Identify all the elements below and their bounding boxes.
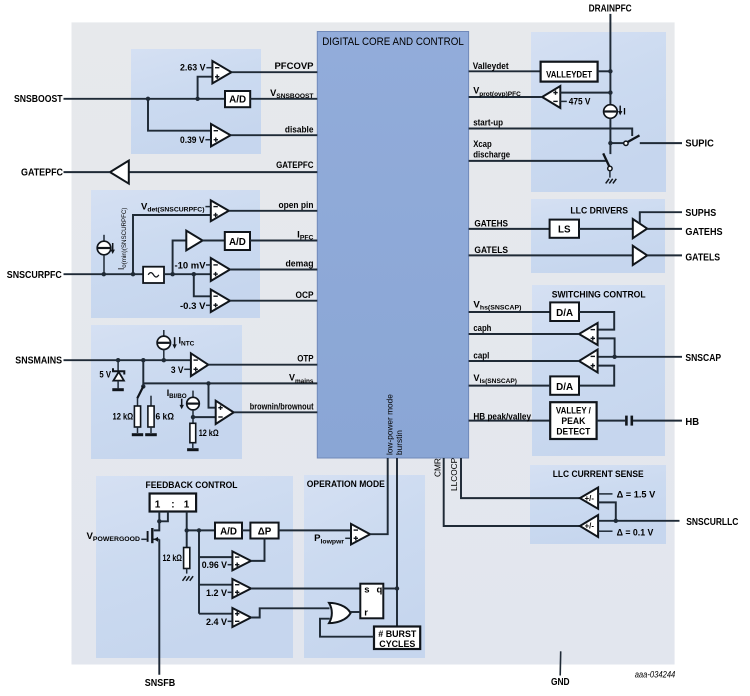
pin label SUPIC bbox=[685, 138, 714, 150]
pin label SNSFB bbox=[145, 677, 176, 689]
svg-text:-0.3 V: -0.3 V bbox=[180, 301, 206, 312]
value label 12 kOhm feedback bbox=[163, 553, 183, 564]
current source I o(min)(SNSCURPFC) bbox=[97, 235, 111, 274]
comparator U9 OCP bbox=[211, 290, 230, 313]
value label 1.2 V bbox=[206, 588, 232, 599]
pin label SNSCURLLC bbox=[686, 516, 739, 528]
wire comparator chain vertical bbox=[198, 530, 200, 613]
svg-text:VALLEYDET: VALLEYDET bbox=[546, 70, 592, 80]
value label 0.96 V bbox=[202, 560, 233, 571]
value label 475 V bbox=[560, 97, 591, 108]
wire 1.2V output to latch s bbox=[251, 588, 360, 590]
net label VSNSBOOST bbox=[270, 88, 314, 100]
wire PFCOVP output bbox=[231, 71, 317, 73]
value label 5 V bbox=[99, 369, 111, 380]
svg-text:GATELS: GATELS bbox=[474, 245, 508, 256]
net label GATEHS bbox=[474, 218, 508, 229]
wire VSNSBOOST output bbox=[250, 98, 317, 100]
svg-text:ΔP: ΔP bbox=[258, 526, 272, 537]
pin label HB bbox=[685, 416, 699, 428]
svg-text:GATEPFC: GATEPFC bbox=[276, 160, 314, 171]
title FEEDBACK CONTROL bbox=[146, 480, 238, 491]
value label 2.63 V bbox=[180, 62, 212, 73]
wire to open pin comparator + input bbox=[133, 215, 211, 274]
capacitor C1 HB bbox=[626, 416, 631, 426]
svg-text:s: s bbox=[364, 585, 369, 596]
wire 2.4V output to OR gate bbox=[251, 608, 330, 617]
or gate U19 bbox=[329, 603, 351, 623]
comparator U27 caph bbox=[579, 323, 598, 345]
node SNSCAP junction bbox=[612, 355, 616, 359]
node switch pivot bbox=[141, 384, 145, 388]
panel OPERATION MODE bbox=[304, 475, 425, 658]
svg-text:OCP: OCP bbox=[296, 290, 315, 301]
svg-text:DIGITAL CORE AND CONTROL: DIGITAL CORE AND CONTROL bbox=[322, 36, 464, 48]
svg-text:Δ = 1.5 V: Δ = 1.5 V bbox=[617, 490, 656, 501]
svg-text:I: I bbox=[623, 106, 626, 116]
svg-text:GATEHS: GATEHS bbox=[685, 226, 722, 238]
switch S3 Xcap discharge bbox=[603, 153, 612, 177]
D/A converter U26 bbox=[550, 302, 579, 321]
panel SWITCHING CONTROL bbox=[532, 285, 665, 456]
net label PFCOVP bbox=[274, 61, 314, 72]
buffer U4 PFC gate driver bbox=[110, 161, 129, 184]
comparator U11 brownin/brownout bbox=[216, 401, 234, 424]
A/D converter U7 bbox=[225, 232, 250, 250]
wire detect to capacitor bbox=[597, 420, 626, 422]
node current source to SNSCURPFC bbox=[102, 272, 106, 276]
value label 12 kOhm brown bbox=[199, 428, 219, 439]
svg-text:12 kΩ: 12 kΩ bbox=[163, 553, 183, 564]
node OCP branch bbox=[192, 272, 196, 276]
wire transformer right pin bbox=[186, 512, 188, 531]
net label GATELS bbox=[474, 245, 508, 256]
net label Vmains bbox=[289, 373, 314, 385]
wire demag output bbox=[230, 269, 317, 271]
svg-text:HB peak/valley: HB peak/valley bbox=[473, 411, 531, 422]
svg-text:1.2 V: 1.2 V bbox=[206, 588, 228, 599]
wire OTP output bbox=[208, 364, 317, 366]
arrow INTC direction bbox=[172, 337, 176, 349]
A/D converter U12 bbox=[215, 523, 242, 539]
comparator U10 OTP bbox=[191, 353, 208, 376]
wire DRAINPFC vertical bbox=[609, 14, 611, 105]
latch U18 SR bbox=[360, 584, 383, 619]
value label 6 kOhm bbox=[156, 411, 175, 422]
panel LLC CURRENT SENSE bbox=[530, 465, 666, 544]
wire filter to demag comparator bbox=[164, 273, 211, 275]
net label GATEPFC bbox=[276, 160, 314, 171]
wire SNSCURPFC main bbox=[64, 273, 144, 275]
wire OCP output bbox=[230, 300, 317, 302]
svg-text:CYCLES: CYCLES bbox=[379, 639, 415, 649]
svg-text:1: 1 bbox=[155, 499, 161, 510]
A/D converter U2 bbox=[225, 91, 250, 107]
wire Xcap discharge from core bbox=[469, 160, 606, 162]
title OPERATION MODE bbox=[307, 479, 386, 490]
pin label VPOWERGOOD bbox=[87, 531, 141, 543]
svg-text:2.63 V: 2.63 V bbox=[180, 62, 206, 73]
wire Vls(SNSCAP) from core bbox=[469, 385, 551, 387]
wire capacitor to HB pin bbox=[633, 420, 682, 422]
wire brownin/brownout output bbox=[234, 411, 318, 413]
wire Vhs(SNSCAP) from core bbox=[469, 311, 551, 313]
wire branch to 2.4V comparator bbox=[199, 613, 232, 615]
ground R1 bbox=[132, 433, 143, 436]
switch S1 divider select bbox=[137, 386, 143, 398]
wire start-up from core bbox=[469, 129, 633, 137]
filter block F1 bbox=[143, 267, 164, 283]
node SNSBOOST branch A bbox=[146, 97, 150, 101]
wire SNSCAP line bbox=[598, 356, 682, 358]
node brown branch on Vmains bbox=[206, 381, 210, 385]
buffer U24 high side driver bbox=[633, 219, 647, 238]
wire disable output bbox=[231, 134, 318, 136]
svg-text:SNSFB: SNSFB bbox=[145, 677, 176, 689]
net label OTP bbox=[297, 354, 314, 365]
net label IPFC bbox=[297, 229, 313, 241]
current source I BI/BO bbox=[187, 391, 200, 418]
wire feedback node to A/D bbox=[187, 529, 215, 531]
amplifier U6 bbox=[186, 231, 202, 251]
wire capl output to core bbox=[469, 360, 579, 362]
wire GATEPFC to pin bbox=[64, 171, 111, 173]
wire to MOSFET drain bbox=[154, 521, 160, 530]
resistor R2 6k bbox=[148, 396, 154, 433]
net label HB peak/valley bbox=[473, 411, 531, 422]
pin label GND bbox=[551, 676, 570, 688]
svg-text:6 kΩ: 6 kΩ bbox=[156, 411, 175, 422]
wire CMR from core to comparator bbox=[444, 458, 580, 526]
switch S2 SUPIC bbox=[624, 135, 640, 145]
svg-text:LLC CURRENT SENSE: LLC CURRENT SENSE bbox=[553, 469, 644, 480]
node open-pin branch bbox=[131, 272, 135, 276]
net label brownin/brownout bbox=[250, 402, 314, 413]
svg-text:SNSBOOST: SNSBOOST bbox=[14, 93, 63, 105]
net label Vhs(SNSCAP) bbox=[473, 299, 521, 311]
pin label GATEHS bbox=[685, 226, 722, 238]
svg-text:PEAK: PEAK bbox=[561, 416, 585, 426]
value label INTC bbox=[179, 336, 195, 348]
svg-text:# BURST: # BURST bbox=[378, 629, 416, 639]
svg-text:r: r bbox=[364, 607, 368, 618]
net label disable bbox=[285, 124, 314, 135]
svg-text:disable: disable bbox=[285, 124, 314, 135]
svg-text:SNSCURPFC: SNSCURPFC bbox=[7, 269, 62, 281]
value label Vdet(SNSCURPFC) bbox=[141, 201, 211, 213]
svg-text:1: 1 bbox=[184, 499, 190, 510]
svg-text:12 kΩ: 12 kΩ bbox=[113, 411, 134, 422]
svg-text:SNSCAP: SNSCAP bbox=[685, 352, 721, 364]
wire A/D to deltaP bbox=[242, 529, 250, 531]
value label Plowpwr bbox=[314, 533, 351, 545]
panel LLC DRIVERS bbox=[531, 199, 665, 273]
wire GATELS to pin bbox=[647, 254, 682, 256]
value label 12 kOhm bbox=[113, 411, 134, 422]
value label -0.3 V bbox=[180, 301, 211, 312]
wire IBIBO node to - input bbox=[193, 416, 216, 418]
svg-text:caph: caph bbox=[473, 323, 491, 334]
wire latch q to burstin bbox=[383, 588, 397, 590]
value label 0.39 V bbox=[180, 135, 211, 146]
svg-text:VALLEY /: VALLEY / bbox=[556, 405, 591, 415]
node ovp DRAINPFC bbox=[608, 90, 612, 94]
svg-text:open pin: open pin bbox=[279, 200, 314, 211]
title SWITCHING CONTROL bbox=[552, 289, 646, 300]
node SNSBOOST branch B bbox=[195, 97, 199, 101]
comparator U3 disable bbox=[211, 124, 231, 146]
D/A converter U29 bbox=[550, 376, 579, 394]
wire SNSCURLLC line bbox=[598, 520, 679, 522]
net label caph bbox=[473, 323, 491, 334]
net label CMR rotated bbox=[432, 458, 442, 477]
comparator U14 0.96V bbox=[232, 551, 251, 570]
wire GATEHS from core bbox=[469, 228, 550, 230]
ground zener bbox=[112, 388, 124, 391]
pin label SNSCAP bbox=[685, 352, 721, 364]
svg-text:Valleydet: Valleydet bbox=[473, 61, 510, 72]
wire caph plus to SNSCAP bbox=[598, 338, 615, 356]
value label 3 V bbox=[171, 365, 191, 376]
svg-text:burstin: burstin bbox=[394, 430, 404, 455]
svg-text:GATEHS: GATEHS bbox=[474, 218, 508, 229]
ground Xcap switch bbox=[606, 179, 617, 184]
wire capl plus to D/A bbox=[579, 366, 614, 386]
wire to PFCOVP comparator + input bbox=[198, 77, 213, 99]
svg-text:3 V: 3 V bbox=[171, 365, 184, 376]
wire SNSBOOST main bbox=[64, 98, 226, 100]
svg-text:brownin/brownout: brownin/brownout bbox=[250, 402, 314, 413]
wire to amplifier input bbox=[173, 241, 187, 275]
net label Xcap discharge bbox=[473, 139, 510, 160]
title LLC CURRENT SENSE bbox=[553, 469, 644, 480]
zener diode D1 5V bbox=[113, 360, 124, 388]
pin label SNSMAINS bbox=[15, 355, 62, 367]
wire branch to 1.2V comparator bbox=[199, 584, 232, 586]
wire SNSFB vertical bbox=[158, 539, 160, 675]
wire amplifier to A/D bbox=[203, 240, 225, 242]
pin label SNSCURPFC bbox=[7, 269, 62, 281]
panel HV start-up bbox=[531, 32, 666, 192]
arrow startup current + I bbox=[618, 106, 626, 117]
comparator U1 PFCOVP bbox=[212, 61, 231, 83]
svg-text:DETECT: DETECT bbox=[556, 427, 590, 437]
wire LS to driver bbox=[579, 228, 633, 230]
node comparator chain branch bbox=[197, 528, 201, 532]
block U23 LS level shifter bbox=[550, 220, 579, 238]
wire caph output to core bbox=[469, 333, 579, 335]
value label delta 0.1 V bbox=[617, 527, 654, 538]
svg-text:PFCOVP: PFCOVP bbox=[274, 61, 314, 72]
wire or output to latch r bbox=[351, 611, 361, 613]
svg-text:SNSCURLLC: SNSCURLLC bbox=[686, 516, 739, 528]
svg-text:demag: demag bbox=[286, 259, 314, 270]
svg-text:OTP: OTP bbox=[297, 354, 314, 365]
comparator U32 CMR bbox=[580, 515, 598, 537]
svg-text:start-up: start-up bbox=[473, 118, 503, 129]
block U20 # burst cycles bbox=[374, 627, 420, 650]
svg-text:-10 mV: -10 mV bbox=[175, 261, 207, 272]
svg-text:5 V: 5 V bbox=[99, 369, 111, 380]
pin label GATELS bbox=[685, 252, 720, 264]
svg-text:D/A: D/A bbox=[556, 308, 573, 319]
net label LLCOCP rotated bbox=[449, 457, 459, 491]
value label -10 mV bbox=[175, 261, 211, 272]
node transformer pins bbox=[157, 519, 161, 523]
svg-text::: : bbox=[171, 499, 174, 510]
svg-text:0.96 V: 0.96 V bbox=[202, 560, 228, 571]
wire GATEHS to pin bbox=[647, 228, 682, 230]
node amplifier branch bbox=[170, 272, 174, 276]
svg-text:A/D: A/D bbox=[220, 526, 237, 537]
wire GND stub bbox=[559, 651, 562, 675]
panel PFC current sense group bbox=[91, 190, 260, 318]
block U30 valley peak detect bbox=[550, 402, 596, 439]
svg-text:D/A: D/A bbox=[556, 382, 573, 393]
svg-text:475 V: 475 V bbox=[569, 97, 591, 108]
wire 0.96V output to deltaP bbox=[251, 539, 265, 561]
panel FEEDBACK CONTROL bbox=[96, 476, 293, 658]
wire deltaP to Plowpwr comparator bbox=[279, 529, 351, 531]
node VALLEYDET DRAINPFC bbox=[608, 69, 612, 73]
outer diagram panel bbox=[72, 22, 675, 664]
ground R2 bbox=[145, 433, 157, 436]
comparator U8 demag bbox=[211, 258, 230, 281]
transistor Q1 power good bbox=[141, 528, 159, 543]
wire to disable comparator - input bbox=[148, 99, 211, 131]
svg-text:SUPHS: SUPHS bbox=[685, 207, 716, 219]
wire branch to 0.96V comparator bbox=[199, 556, 232, 558]
wire burst cycles feedback to or gate bbox=[320, 619, 374, 637]
net label open pin bbox=[279, 200, 314, 211]
svg-text:GATEPFC: GATEPFC bbox=[21, 167, 63, 179]
node SNSCURLLC junction bbox=[614, 519, 618, 523]
node SUPIC junction bbox=[608, 141, 612, 145]
wire DRAINPFC to switch contact bbox=[610, 142, 623, 144]
ground R4 signal bbox=[183, 576, 194, 581]
wire HB peak/valley from core bbox=[469, 420, 551, 422]
wire comparator + to DRAINPFC bbox=[560, 92, 610, 94]
buffer U25 low side driver bbox=[633, 246, 647, 265]
svg-text:aaa-034244: aaa-034244 bbox=[635, 669, 676, 679]
wire VALLEYDET to DRAINPFC bbox=[598, 70, 611, 72]
title LLC DRIVERS bbox=[570, 206, 628, 217]
svg-text:0.39 V: 0.39 V bbox=[180, 135, 205, 146]
svg-text:A/D: A/D bbox=[229, 95, 246, 106]
svg-text:low-power mode: low-power mode bbox=[384, 394, 394, 455]
pin label GATEPFC bbox=[21, 167, 63, 179]
wire transformer winding staple bbox=[159, 512, 168, 522]
svg-text:capl: capl bbox=[473, 350, 489, 361]
node q burstin bbox=[395, 586, 399, 590]
svg-text:+/-: +/- bbox=[585, 522, 595, 531]
wire GATELS from core bbox=[469, 254, 633, 256]
transformer T1 1:1 bbox=[150, 494, 197, 512]
wire to value 1.5V bbox=[598, 493, 612, 495]
wire to value 0.1V bbox=[598, 530, 612, 532]
wire SNSMAINS main bbox=[64, 359, 191, 361]
node IBIBO to comparator bbox=[191, 415, 195, 419]
panel PFC OVP group bbox=[131, 49, 261, 154]
wire LLCOCP from core to comparator bbox=[461, 458, 580, 498]
node feedback main bbox=[185, 528, 189, 532]
comparator U28 capl bbox=[579, 350, 598, 373]
pin label SNSBOOST bbox=[14, 93, 63, 105]
svg-text:LLCOCP: LLCOCP bbox=[449, 457, 459, 491]
svg-text:A/D: A/D bbox=[229, 237, 246, 248]
net label Vprot(ovp)PFC bbox=[473, 86, 521, 98]
net label Valleydet bbox=[473, 61, 510, 72]
block U21 VALLEYDET bbox=[541, 62, 598, 82]
wire Plowpwr output to core low-power mode bbox=[370, 458, 388, 534]
net label Vls(SNSCAP) bbox=[473, 373, 517, 385]
current source I NTC bbox=[157, 330, 170, 360]
svg-text:HB: HB bbox=[685, 416, 699, 428]
net label start-up bbox=[473, 118, 503, 129]
digital core block U0 bbox=[317, 32, 468, 459]
figure id aaa-034244 bbox=[635, 669, 676, 679]
arrow IBIBO direction bbox=[180, 399, 184, 410]
value label 2.4 V bbox=[206, 617, 232, 628]
resistor R4 12k feedback bbox=[184, 530, 190, 573]
ground R3 bbox=[187, 448, 199, 451]
svg-text:LS: LS bbox=[558, 225, 571, 236]
svg-text:2.4 V: 2.4 V bbox=[206, 617, 228, 628]
svg-text:GATELS: GATELS bbox=[685, 252, 720, 264]
pin label SUPHS bbox=[685, 207, 716, 219]
pin label DRAINPFC bbox=[589, 3, 632, 15]
net label OCP bbox=[296, 290, 315, 301]
svg-text:FEEDBACK CONTROL: FEEDBACK CONTROL bbox=[146, 480, 238, 491]
svg-text:GND: GND bbox=[551, 676, 570, 688]
svg-text:CMR: CMR bbox=[432, 458, 442, 477]
wire burstin vertical bbox=[396, 458, 398, 627]
comparator U5 open pin bbox=[211, 200, 229, 221]
wire divider vertical bbox=[142, 360, 144, 386]
node zener branch bbox=[116, 358, 120, 362]
net label demag bbox=[286, 259, 314, 270]
wire Valleydet from core bbox=[469, 70, 541, 72]
wire GATEPFC from core bbox=[129, 171, 317, 173]
net label capl bbox=[473, 350, 489, 361]
node divider branch bbox=[141, 358, 145, 362]
svg-text:SWITCHING CONTROL: SWITCHING CONTROL bbox=[552, 289, 646, 300]
block U13 deltaP bbox=[250, 523, 278, 539]
wire transformer left pin bbox=[158, 512, 160, 522]
svg-text:OPERATION MODE: OPERATION MODE bbox=[307, 479, 386, 490]
resistor R3 12k bbox=[190, 417, 196, 448]
wire open pin output bbox=[229, 210, 317, 212]
panel mains sense group bbox=[91, 325, 242, 459]
wire LLCOCP comparator minus to SNSCURLLC bbox=[598, 502, 616, 520]
svg-text:discharge: discharge bbox=[473, 149, 510, 160]
wire to OCP comparator - input bbox=[194, 274, 211, 296]
wire Vmains to core bbox=[143, 382, 317, 384]
value label Io(min)(SNSCURPFC) rotated bbox=[116, 208, 128, 270]
arrow current direction bbox=[111, 243, 115, 254]
net label burstin rotated bbox=[394, 430, 404, 455]
svg-text:q: q bbox=[377, 585, 383, 596]
comparator U31 LLC OCP bbox=[580, 488, 598, 509]
comparator U15 1.2V bbox=[232, 579, 251, 598]
resistor R1 12k bbox=[134, 398, 140, 433]
value label IBI/BO bbox=[167, 388, 187, 400]
node INTC to SNSMAINS bbox=[162, 358, 166, 362]
wire to brown comparator + input bbox=[209, 383, 216, 407]
svg-text:+/-: +/- bbox=[585, 494, 595, 503]
comparator U22 Vprot(ovp)PFC bbox=[542, 86, 560, 108]
wire SUPIC to pin bbox=[640, 142, 682, 144]
